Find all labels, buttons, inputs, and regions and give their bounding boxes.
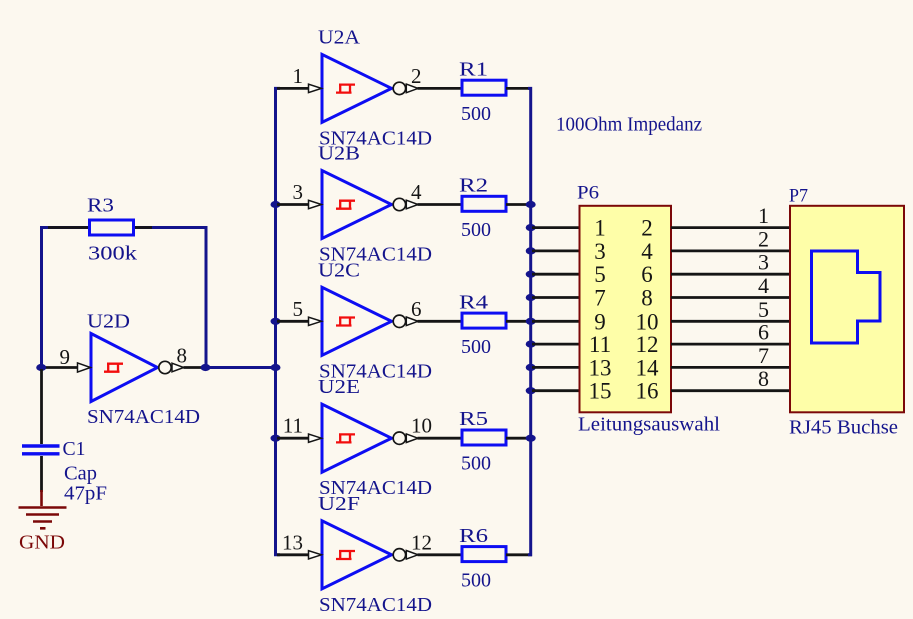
- svg-text:2: 2: [641, 216, 653, 241]
- svg-text:5: 5: [758, 297, 769, 322]
- svg-text:5: 5: [293, 297, 304, 321]
- svg-text:47pF: 47pF: [64, 483, 107, 505]
- svg-text:SN74AC14D: SN74AC14D: [87, 406, 200, 428]
- svg-text:1: 1: [594, 216, 606, 241]
- junction: bus tap row 6: [526, 341, 536, 348]
- svg-text:U2B: U2B: [318, 143, 360, 165]
- capacitor C1: [22, 438, 107, 505]
- resistor R5: [459, 408, 506, 475]
- wire: R5 to output bus: [506, 437, 532, 440]
- svg-text:9: 9: [60, 345, 71, 369]
- wire: feedback loop left vertical + top to R3: [42, 228, 207, 368]
- junction: bus/R2: [526, 201, 536, 208]
- svg-text:7: 7: [594, 286, 606, 311]
- svg-text:R2: R2: [459, 175, 488, 197]
- svg-text:6: 6: [758, 320, 769, 345]
- svg-text:4: 4: [641, 239, 653, 264]
- svg-text:Leitungsauswahl: Leitungsauswahl: [578, 414, 720, 436]
- wire: node down to C1: [40, 369, 43, 444]
- svg-text:U2E: U2E: [318, 376, 360, 398]
- wire: P6 pin 16 to P7 pin 8: [671, 389, 789, 392]
- wire: bus to P6 pin 7: [532, 296, 579, 299]
- resistor R2: [459, 175, 506, 242]
- junction: bus tap row 2: [526, 247, 536, 254]
- svg-text:3: 3: [594, 239, 606, 264]
- wire: input distribution bus: [276, 88, 281, 554]
- svg-text:U2A: U2A: [318, 26, 361, 48]
- svg-text:4: 4: [411, 180, 422, 204]
- wire: P6 pin 10 to P7 pin 5: [671, 320, 789, 323]
- svg-text:13: 13: [282, 530, 303, 554]
- junction: bus tap row 4: [526, 294, 536, 301]
- svg-text:8: 8: [177, 344, 188, 368]
- junction: bus/U2C input: [271, 318, 281, 325]
- svg-text:12: 12: [636, 332, 659, 357]
- svg-text:500: 500: [461, 569, 491, 591]
- svg-text:1: 1: [293, 64, 304, 88]
- inverter gate U2E: [309, 404, 419, 472]
- svg-text:3: 3: [758, 250, 769, 275]
- svg-text:14: 14: [636, 355, 660, 380]
- svg-text:R1: R1: [459, 58, 488, 80]
- svg-text:3: 3: [293, 180, 304, 204]
- junction: bus/U2B input: [271, 201, 281, 208]
- wire: bus to P6 pin 1: [532, 226, 579, 229]
- wire: C1 to ground: [40, 456, 43, 492]
- svg-text:7: 7: [758, 343, 769, 368]
- svg-text:10: 10: [411, 414, 432, 438]
- connector P6: [580, 206, 672, 412]
- wire: R4 to output bus: [506, 320, 532, 323]
- wire: bus to P6 pin 11: [532, 343, 579, 346]
- wire: U2F output pin: [418, 553, 462, 556]
- junction: bus tap row 8: [526, 387, 536, 394]
- svg-text:SN74AC14D: SN74AC14D: [319, 594, 432, 616]
- svg-text:P7: P7: [789, 186, 808, 207]
- svg-text:500: 500: [461, 219, 491, 241]
- svg-text:R4: R4: [459, 291, 488, 313]
- wire: bus to P6 pin 3: [532, 249, 579, 252]
- junction: bus tap row 3: [526, 271, 536, 278]
- svg-text:500: 500: [461, 103, 491, 125]
- ground: [19, 490, 67, 554]
- svg-text:U2C: U2C: [318, 259, 360, 281]
- wire: R3 black pin stubs: [48, 226, 152, 229]
- junction: bus/R5: [526, 435, 536, 442]
- wire: R6 to output bus: [506, 553, 532, 556]
- resistor R3: [87, 195, 137, 265]
- wire: U2E input pin: [277, 437, 309, 440]
- svg-text:11: 11: [589, 332, 611, 357]
- wire: R2 to output bus: [506, 203, 532, 206]
- svg-text:GND: GND: [19, 532, 65, 554]
- inverter gate U2F: [309, 521, 419, 589]
- inverter gate U2D: [78, 334, 184, 402]
- wire: U2D output to input bus: [206, 366, 277, 369]
- svg-text:9: 9: [594, 309, 606, 334]
- svg-text:6: 6: [411, 297, 422, 321]
- svg-text:2: 2: [411, 64, 422, 88]
- wire: U2A input pin: [277, 87, 309, 90]
- resistor R1: [459, 58, 506, 125]
- inverter gate U2C: [309, 287, 419, 355]
- svg-text:6: 6: [641, 262, 653, 287]
- svg-text:10: 10: [636, 309, 659, 334]
- wire: P6 pin 8 to P7 pin 4: [671, 296, 789, 299]
- junction: bus tap row 7: [526, 364, 536, 371]
- wire: bus to P6 pin 15: [532, 389, 579, 392]
- svg-text:U2D: U2D: [87, 311, 130, 333]
- junction: input node at C1: [36, 364, 46, 371]
- svg-text:U2F: U2F: [318, 493, 360, 515]
- svg-text:R5: R5: [459, 408, 488, 430]
- svg-text:12: 12: [411, 530, 432, 554]
- wire: U2C input pin: [277, 320, 309, 323]
- wire: U2A output pin: [418, 87, 462, 90]
- wire: P6 pin 2 to P7 pin 1: [671, 226, 789, 229]
- wire: U2D output stub: [184, 366, 207, 369]
- resistor R4: [459, 291, 506, 358]
- svg-text:8: 8: [641, 286, 653, 311]
- svg-text:C1: C1: [63, 438, 86, 460]
- junction: bus/U2D output: [271, 364, 281, 371]
- junction: bus/U2E input: [271, 435, 281, 442]
- junction: bus tap row 1: [526, 224, 536, 231]
- svg-text:16: 16: [636, 379, 659, 404]
- wire: bus to P6 pin 5: [532, 273, 579, 276]
- wire: U2F input pin: [277, 553, 309, 556]
- svg-text:2: 2: [758, 226, 769, 251]
- resistor R6: [459, 525, 506, 592]
- svg-text:5: 5: [594, 262, 606, 287]
- svg-text:11: 11: [283, 414, 303, 438]
- wire: bus to P6 pin 9: [532, 320, 579, 323]
- svg-text:R3: R3: [87, 195, 114, 217]
- wire: U2D input pin stub: [43, 366, 78, 369]
- svg-text:Cap: Cap: [64, 463, 97, 485]
- wire: U2C output pin: [418, 320, 462, 323]
- junction: bus tap row 5: [526, 318, 536, 325]
- svg-text:RJ45 Buchse: RJ45 Buchse: [789, 417, 898, 439]
- inverter gate U2B: [309, 171, 419, 239]
- svg-text:500: 500: [461, 453, 491, 475]
- svg-text:1: 1: [758, 203, 769, 228]
- wire: R1 to output bus: [506, 87, 532, 90]
- wire: U2B input pin: [277, 203, 309, 206]
- svg-text:100Ohm Impedanz: 100Ohm Impedanz: [556, 114, 702, 136]
- junction: feedback/output node: [201, 364, 211, 371]
- wire: U2E output pin: [418, 437, 462, 440]
- wire: P6 pin 14 to P7 pin 7: [671, 366, 789, 369]
- svg-text:13: 13: [589, 355, 612, 380]
- inverter gate U2A: [309, 54, 419, 122]
- connector P7: [790, 206, 904, 412]
- svg-text:P6: P6: [577, 183, 599, 204]
- wire: U2B output pin: [418, 203, 462, 206]
- svg-text:4: 4: [758, 273, 769, 298]
- svg-text:300k: 300k: [88, 243, 137, 265]
- wire: output bus vertical: [528, 88, 531, 554]
- wire: P6 pin 6 to P7 pin 3: [671, 273, 789, 276]
- wire: P6 pin 12 to P7 pin 6: [671, 343, 789, 346]
- svg-text:15: 15: [589, 379, 612, 404]
- svg-text:R6: R6: [459, 525, 488, 547]
- wire: bus to P6 pin 13: [532, 366, 579, 369]
- svg-text:500: 500: [461, 336, 491, 358]
- RJ45 jack symbol: [812, 251, 881, 343]
- wire: P6 pin 4 to P7 pin 2: [671, 249, 789, 252]
- svg-text:8: 8: [758, 366, 769, 391]
